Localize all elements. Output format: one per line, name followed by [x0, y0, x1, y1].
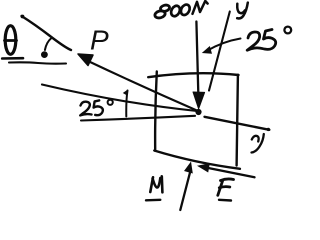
box bottom edge (incline surface): [154, 151, 240, 169]
y axis line: [209, 12, 230, 91]
label N underline: [146, 199, 160, 202]
label 800N : first 0: [169, 4, 181, 17]
label N: [150, 176, 162, 192]
horizontal reference line (theta detail): [9, 62, 66, 63]
pivot point blob: [195, 109, 201, 115]
box top edge: [148, 73, 238, 77]
label 800N : digit 8: [154, 4, 170, 19]
800N force line: [196, 22, 198, 94]
force P line: [88, 61, 198, 111]
horizontal reference line (middle): [81, 116, 195, 121]
label 25deg (top) : digit 2: [247, 32, 263, 50]
box left edge: [155, 72, 157, 151]
normal force N line: [180, 173, 190, 211]
slanted reference line (theta detail): [21, 15, 71, 50]
label 25deg (top) : degree circle: [284, 27, 291, 34]
theta underline: [2, 57, 23, 60]
incline reference line (shallow, to pivot): [42, 85, 197, 112]
label 25deg (middle) : degree circle: [108, 100, 113, 105]
25 deg arc (top): [202, 39, 241, 54]
800N force arrowhead: [193, 92, 205, 109]
box right edge: [237, 75, 238, 166]
label 800N : second 0: [179, 3, 191, 16]
label F underline: [219, 199, 231, 202]
normal force N arrowhead: [184, 162, 193, 174]
force P arrowhead: [78, 54, 93, 66]
label 25deg (middle) : digit 5: [94, 100, 103, 115]
friction force F arrowhead: [197, 163, 210, 172]
theta angle arc arrow: [41, 38, 52, 58]
label y: [237, 3, 248, 19]
theta symbol: [5, 26, 17, 55]
label F: [218, 179, 234, 195]
svg-text:P: P: [90, 25, 109, 56]
friction force F line: [207, 168, 255, 178]
label 800N : letter N: [193, 1, 208, 14]
x axis line: [205, 117, 270, 131]
25 deg angle tick (middle): [123, 90, 128, 117]
label 25deg (middle) : digit 2: [80, 102, 91, 116]
label x (cursive): [252, 134, 264, 153]
label 25deg (top) : digit 5: [264, 30, 276, 50]
